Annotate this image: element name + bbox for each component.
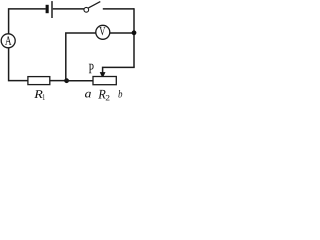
wire right side down (133, 8, 135, 67)
battery negative plate (short thick) (46, 5, 49, 13)
wire junction to rheostat end a (67, 80, 94, 82)
label R2 (98, 90, 105, 99)
switch lever (open) (88, 2, 100, 8)
wire to rheostat wiper (103, 67, 135, 72)
label R1 (34, 90, 42, 98)
voltmeter label V (99, 27, 105, 35)
switch pivot circle (84, 7, 89, 12)
rheostat R2 track box (93, 77, 116, 85)
rheostat wiper arrowhead (100, 72, 106, 78)
junction dot right (132, 30, 137, 35)
label P (89, 64, 94, 73)
voltmeter V1 circle (96, 25, 110, 39)
label b (118, 90, 122, 98)
wire battery to switch (53, 8, 84, 10)
junction dot bottom (64, 78, 69, 83)
battery positive plate (long thin) (51, 1, 52, 18)
wire R1 to junction (50, 80, 67, 82)
label a (85, 92, 91, 98)
resistor R1 box (28, 77, 50, 85)
ammeter label A (5, 36, 11, 45)
wire voltmeter to right junction (110, 32, 134, 34)
wire top-left corner: ammeter up and across to battery (9, 9, 46, 34)
ammeter A1 circle (1, 34, 15, 48)
wire voltmeter branch: junction up and across (66, 33, 96, 81)
wire ammeter down to bottom-left corner and to R1 (9, 48, 28, 81)
wire switch to top-right corner (103, 8, 134, 10)
